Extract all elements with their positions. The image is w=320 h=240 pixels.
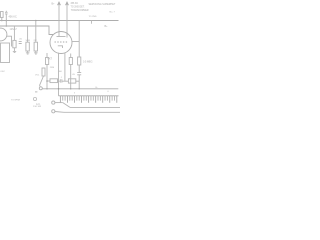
junction dot gnd x70.7 [70, 88, 72, 90]
svg-text:TRANSFORMER: TRANSFORMER [71, 9, 89, 12]
svg-text:456 KC: 456 KC [71, 3, 79, 5]
heater ballast comb element [59, 95, 119, 97]
ground G3 [34, 53, 38, 54]
wire R5 to ground bus [70, 65, 72, 89]
resistor R4 lead [46, 53, 48, 58]
wire R1 to ground [13, 48, 15, 51]
resistor R5 lead [70, 54, 72, 58]
resistor R5 [69, 58, 72, 65]
resistor R1 [13, 40, 16, 47]
svg-text:TO 2ND: TO 2ND [89, 16, 97, 18]
svg-text:.1: .1 [60, 77, 63, 79]
AC line wire 2 [64, 111, 120, 113]
resistor R3 lead [35, 21, 37, 43]
svg-text:25M: 25M [50, 67, 54, 69]
plug prong circle 1 [52, 101, 55, 104]
volume pot R7 [42, 68, 45, 76]
IF can box 2 [68, 79, 75, 83]
IF primary terminal arrow 1 [58, 2, 61, 5]
terminal circle 2 [33, 97, 36, 100]
capacitor C5 [77, 73, 81, 75]
svg-text:.05: .05 [72, 74, 76, 76]
wire box2 right [76, 80, 79, 82]
label dash [35, 91, 37, 93]
junction node ANT [1, 20, 3, 22]
svg-text:.05: .05 [19, 39, 23, 41]
wire R4 to ground bus [46, 65, 48, 89]
tube cathode lead [64, 53, 66, 81]
wire box1 left [47, 80, 50, 82]
switch blade S1 [63, 103, 70, 108]
IF primary terminal arrow 2 [66, 2, 69, 5]
junction dot gnd x79.6 [78, 88, 80, 90]
svg-text:B+: B+ [52, 2, 56, 5]
svg-text:12SA7: 12SA7 [10, 28, 18, 31]
junction dot gnd x59.5 [58, 88, 60, 90]
AVC bus wire (second horizontal) [0, 26, 53, 35]
trimmer capacitor C1 [5, 11, 8, 14]
resistor R4 [46, 58, 49, 65]
pilot terminal circle [39, 87, 42, 90]
tube V2 envelope [50, 32, 72, 54]
junction dot bus A x6.3 [6, 20, 8, 22]
switch terminal stub [55, 102, 63, 104]
svg-text:No. 7: No. 7 [110, 12, 116, 14]
IF can box 1 [50, 79, 58, 83]
svg-text:B+: B+ [105, 25, 109, 28]
resistor R6 [78, 57, 81, 65]
wire R2 to ground [27, 51, 29, 52]
tube grid return lead [58, 53, 60, 96]
resistor R3 [34, 42, 37, 51]
svg-text:3: 3 [74, 93, 76, 95]
capacitor C2 [19, 42, 22, 44]
svg-text:P.M. SW: P.M. SW [33, 106, 41, 108]
tuning gang capacitor box [1, 43, 10, 63]
wire J1 to B+ bus [1, 18, 3, 21]
svg-text:0.5 MEG: 0.5 MEG [83, 60, 93, 63]
wire R7 to switch [40, 76, 44, 87]
svg-text:SERVICING SUPERHET: SERVICING SUPERHET [89, 3, 116, 6]
wire R3 to ground [35, 51, 37, 52]
antenna terminal box J1 [1, 12, 4, 18]
tube V2 cathode [58, 46, 63, 48]
svg-text:TO 2ND DET.: TO 2ND DET. [71, 6, 85, 8]
svg-text:456 KC: 456 KC [9, 16, 18, 19]
wire screen chain riser [78, 21, 80, 58]
wire V1 plate L-shape [7, 36, 12, 46]
resistor R2 lead [27, 26, 29, 42]
wire C5 to ground bus [78, 75, 80, 89]
wire R6 to C5 [78, 65, 80, 72]
junction dot gnd x47 [46, 88, 48, 90]
B+ bus wire (top horizontal) [0, 20, 119, 22]
tube V2 plate [57, 36, 66, 38]
tube V2 grid [55, 41, 68, 43]
junction dot bus B x6.3 [6, 25, 8, 27]
svg-text:B-: B- [96, 87, 98, 89]
resistor R2 [26, 42, 29, 51]
svg-text:OSC: OSC [0, 71, 5, 73]
wire C1 down to AVC bus [5, 14, 7, 26]
resistor R1 lead [13, 26, 15, 40]
svg-text:VOL: VOL [35, 74, 40, 76]
wire stub below bus [91, 21, 93, 24]
wire prong2 to line [55, 111, 64, 114]
wire plate to load [72, 41, 79, 43]
ground G1 [13, 51, 16, 52]
svg-text:TO SPKR: TO SPKR [11, 99, 21, 101]
AC line wire 1 [70, 106, 120, 108]
tube V1 envelope (left, clipped) [0, 28, 7, 41]
ground G2 [26, 53, 30, 54]
ground bus wire (bottom horizontal) [42, 88, 118, 90]
capacitor C6 [58, 79, 69, 82]
svg-text:A.C.: A.C. [36, 103, 41, 106]
wire plate riser [58, 3, 60, 37]
plug prong circle 2 [52, 110, 55, 113]
svg-text:6: 6 [108, 91, 110, 93]
wire screen riser [66, 3, 68, 38]
junction dot bus A x35.4 [35, 20, 37, 22]
